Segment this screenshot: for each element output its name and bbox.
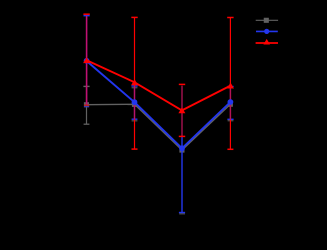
gray series error bar caps at point 2 (mostly hidden): [132, 88, 234, 214]
legend blue entry: [256, 29, 278, 34]
point 2 vertical above/below overlap: [134, 17, 136, 86]
gray series error bar at point 1: [83, 86, 89, 124]
red series triangle markers: [83, 57, 234, 113]
point 2 vertical overlap (magenta): [134, 86, 136, 119]
blue error bar point 3 (lower part visible): [179, 137, 185, 213]
point 4 vertical above/below overlap: [229, 18, 231, 87]
legend red entry: [256, 39, 278, 45]
point 1 caps: [83, 13, 89, 15]
blue series line: [87, 61, 231, 148]
blue error bar point 2 caps: [131, 86, 137, 119]
gray series square markers: [84, 102, 233, 153]
blue error bar caps point 1: [84, 16, 90, 107]
point 3 caps: [179, 83, 185, 85]
point 4 vertical overlap (crimson): [229, 87, 231, 120]
blue series circle markers: [84, 58, 234, 151]
point 1 vertical (magenta): [86, 16, 88, 106]
gray series line: [87, 104, 231, 150]
blue error bar point 4 caps: [227, 87, 233, 120]
red series line: [87, 60, 231, 110]
legend gray entry: [256, 18, 278, 23]
red error bars (pure red segments and caps): [83, 14, 233, 149]
point 3 vertical overlap (crimson): [181, 86, 183, 137]
